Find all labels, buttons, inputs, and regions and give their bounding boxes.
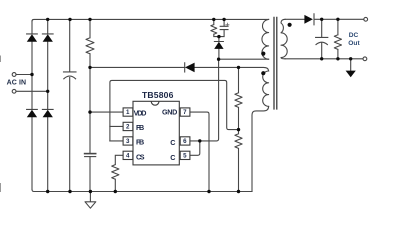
svg-text:TB5806: TB5806 (142, 90, 174, 100)
svg-text:7: 7 (183, 109, 187, 116)
svg-text:FB: FB (136, 123, 144, 132)
svg-text:5: 5 (183, 153, 187, 160)
svg-text:C: C (170, 153, 175, 162)
svg-text:FB: FB (136, 138, 144, 147)
svg-text:DC: DC (349, 32, 359, 39)
svg-text:4: 4 (126, 153, 130, 160)
svg-text:6: 6 (183, 138, 187, 145)
svg-text:1: 1 (126, 109, 130, 116)
svg-text:VDD: VDD (134, 109, 147, 118)
svg-text:CS: CS (136, 152, 145, 161)
svg-text:2: 2 (126, 124, 130, 131)
svg-text:C: C (170, 138, 175, 147)
svg-text:AC IN: AC IN (7, 80, 27, 87)
svg-text:GND: GND (162, 107, 177, 116)
svg-text:Out: Out (348, 40, 360, 47)
svg-text:3: 3 (126, 138, 130, 145)
